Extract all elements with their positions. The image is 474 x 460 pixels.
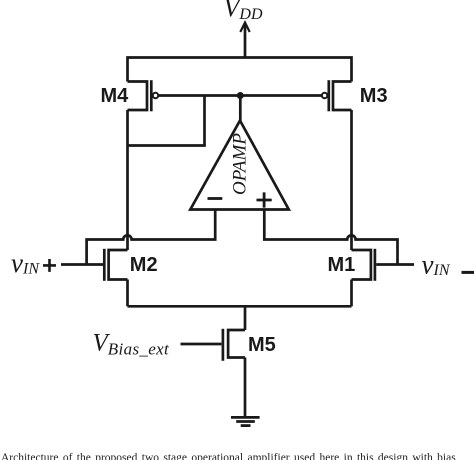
op-amp minus input sign	[208, 197, 223, 200]
wire M2 source down	[126, 280, 129, 307]
transistor M3 gate bubble	[322, 93, 327, 98]
transistor M1 body	[352, 249, 375, 281]
svg-text:VBias_ext: VBias_ext	[93, 330, 171, 359]
transistor M4 gate bubble	[153, 93, 158, 98]
wire M5 source to ground	[244, 358, 247, 417]
wire M5 drain	[244, 306, 247, 330]
op-amp plus input sign	[257, 192, 272, 207]
svg-text:vIN: vIN	[422, 250, 451, 280]
wire bottom rail	[128, 305, 352, 308]
transistor M3 body	[329, 80, 352, 111]
wire M1 source down	[350, 280, 353, 307]
node gate net junction	[237, 92, 244, 99]
wire left branch (M4 drain to M2 drain)	[126, 110, 129, 250]
wire opamp output	[239, 96, 242, 122]
svg-text:M2: M2	[130, 254, 158, 276]
wire vIN+	[61, 263, 104, 266]
plus sign of vIN+	[43, 259, 56, 272]
svg-text:M1: M1	[328, 254, 356, 276]
minus sign of vIN-	[462, 271, 474, 274]
wire gate net M4-M3	[158, 94, 322, 97]
svg-text:M3: M3	[360, 85, 388, 107]
VDD supply arrow	[240, 23, 249, 59]
op-amp OPAMP triangle	[190, 121, 288, 210]
ground	[231, 417, 260, 425]
wire opamp minus input	[87, 210, 216, 265]
svg-text:M4: M4	[101, 85, 130, 107]
transistor M4 body	[128, 80, 152, 111]
wire M4 diode connection	[128, 96, 205, 146]
svg-text:M5: M5	[248, 334, 276, 356]
transistor M2 body	[104, 249, 127, 281]
wire opamp plus input	[264, 210, 397, 265]
wire vIN-	[376, 263, 414, 266]
svg-text:vIN: vIN	[11, 248, 40, 278]
svg-text:VDD: VDD	[224, 0, 263, 23]
caption (cut off at bottom edge)	[1, 452, 474, 460]
wire VDD top rail	[128, 58, 352, 82]
wire M5 gate (V_Bias_ext)	[181, 343, 222, 346]
transistor M5 body	[223, 329, 245, 361]
svg-text:OPAMP: OPAMP	[229, 133, 250, 195]
wire right branch (M3 drain to M1 drain)	[350, 110, 353, 250]
